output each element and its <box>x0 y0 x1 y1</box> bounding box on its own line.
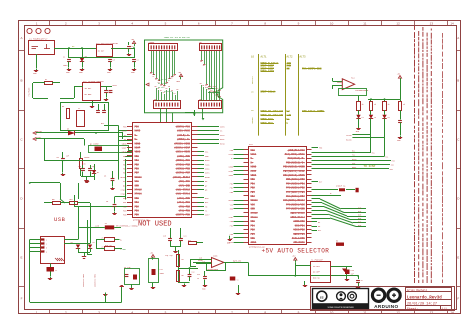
svg-text:TXLED: TXLED <box>346 135 351 137</box>
svg-text:11: 11 <box>363 22 366 26</box>
svg-text:1u: 1u <box>197 278 199 280</box>
svg-text:D13: D13 <box>213 86 216 88</box>
svg-text:C4 1uF: C4 1uF <box>124 267 130 269</box>
svg-text:PF0(ADC0)/PB2: PF0(ADC0)/PB2 <box>286 187 305 190</box>
svg-text:D6: D6 <box>171 90 173 92</box>
svg-text:ALT3: ALT3 <box>300 56 307 59</box>
svg-text:UCAP: UCAP <box>229 170 233 173</box>
svg-text:POLYFUSE: POLYFUSE <box>29 88 31 97</box>
svg-text:PB2: PB2 <box>251 187 256 190</box>
svg-text:D10: D10 <box>358 221 361 223</box>
svg-text:MOS: MOS <box>390 169 393 171</box>
svg-text:D10: D10 <box>358 207 361 209</box>
svg-text:V2: V2 <box>155 79 157 81</box>
svg-text:ALT2: ALT2 <box>287 56 294 59</box>
svg-text:RD-: RD- <box>52 199 55 201</box>
svg-text:X2 USB-MINI: X2 USB-MINI <box>42 240 45 252</box>
svg-text:PE6: PE6 <box>319 148 322 150</box>
svg-text:D1: D1 <box>157 88 159 90</box>
svg-text:D10: D10 <box>358 211 361 213</box>
svg-text:D-: D- <box>330 193 332 195</box>
svg-text:C2: C2 <box>137 60 139 62</box>
svg-text:C11: C11 <box>160 269 163 271</box>
svg-text:C21: C21 <box>184 236 187 238</box>
svg-text:R8: R8 <box>336 241 338 243</box>
svg-text:VCC: VCC <box>230 204 233 206</box>
svg-text:D14: D14 <box>215 88 218 90</box>
svg-text:MF-MSMF050-2 500mA: MF-MSMF050-2 500mA <box>116 224 138 227</box>
svg-text:F2: F2 <box>105 223 107 225</box>
svg-text:D4: D4 <box>165 88 167 90</box>
svg-text:TXL: TXL <box>385 156 388 158</box>
svg-text:MISO: MISO <box>352 159 356 161</box>
svg-text:1/1: 1/1 <box>442 307 447 311</box>
svg-text:C13: C13 <box>351 270 354 272</box>
svg-text:R9: R9 <box>182 275 184 277</box>
svg-text:(OC0A) UCAP: (OC0A) UCAP <box>174 147 190 150</box>
svg-text:3: 3 <box>46 248 47 250</box>
svg-text:UGND: UGND <box>122 142 128 145</box>
svg-text:D8: D8 <box>200 83 202 85</box>
svg-text:PGUB: PGUB <box>337 81 343 84</box>
svg-text:10: 10 <box>251 56 255 59</box>
svg-text:T1 FDN340P: T1 FDN340P <box>311 259 324 262</box>
svg-text:XTAL: XTAL <box>229 216 233 219</box>
svg-text:GND: GND <box>79 72 82 74</box>
svg-text:PE6: PE6 <box>135 126 140 129</box>
svg-text:A: A <box>457 36 459 40</box>
svg-text:1k: 1k <box>362 104 364 106</box>
svg-text:GND: GND <box>107 72 110 74</box>
svg-text:12: 12 <box>396 22 400 26</box>
svg-text:PD3: PD3 <box>230 234 233 236</box>
svg-text:IN OUT: IN OUT <box>98 50 106 53</box>
svg-text:X1 POWERSUPPLY: X1 POWERSUPPLY <box>29 37 48 40</box>
svg-text:L4: L4 <box>374 117 376 119</box>
svg-text:IN OUT: IN OUT <box>85 87 93 90</box>
svg-text:PD4(ADC8)/PB1: PD4(ADC8)/PB1 <box>286 182 305 185</box>
svg-text:(T1) PD3: (T1) PD3 <box>179 210 191 213</box>
svg-text:Sheet:: Sheet: <box>407 307 419 311</box>
svg-text:D10: D10 <box>205 87 208 89</box>
svg-text:A: A <box>20 36 22 40</box>
svg-text:1k: 1k <box>83 164 85 166</box>
svg-text:ALT1: ALT1 <box>261 56 268 59</box>
svg-text:MIS: MIS <box>392 161 395 163</box>
svg-text:(XCK1) PB3: (XCK1) PB3 <box>176 168 191 171</box>
svg-text:NOT USED: NOT USED <box>138 221 172 229</box>
svg-text:VCC2/PD2: VCC2/PD2 <box>293 229 305 232</box>
svg-text:(A8) XTAL2: (A8) XTAL2 <box>176 189 191 192</box>
svg-text:PE6: PE6 <box>230 150 233 152</box>
svg-text:GND: GND <box>356 131 359 133</box>
svg-text:GATE_CMD: GATE_CMD <box>233 260 241 263</box>
svg-text:D2: D2 <box>97 172 99 174</box>
svg-text:4: 4 <box>46 252 47 254</box>
svg-text:PD3: PD3 <box>135 210 140 213</box>
svg-text:MOSI: MOSI <box>220 138 225 141</box>
svg-text:CDSOT23-T05C: CDSOT23-T05C <box>83 274 85 287</box>
svg-text:RXL: RXL <box>372 152 375 154</box>
svg-text:100n: 100n <box>63 65 67 67</box>
svg-text:SDA+SCL: SDA+SCL <box>251 75 254 84</box>
svg-text:C7: C7 <box>132 46 134 48</box>
svg-text:PB1: PB1 <box>230 183 233 185</box>
svg-text:D-: D- <box>124 134 126 137</box>
svg-text:Y2: Y2 <box>78 108 80 110</box>
svg-text:R10 1M: R10 1M <box>105 245 111 247</box>
svg-text:2u: 2u <box>361 280 363 282</box>
svg-text:C3: C3 <box>113 60 115 62</box>
svg-text:C20: C20 <box>163 236 166 238</box>
svg-text:C1: C1 <box>63 57 65 59</box>
svg-text:+5Pu5V: +5Pu5V <box>251 116 254 124</box>
svg-text:V9: V9 <box>173 75 175 77</box>
svg-text:A7: A7 <box>205 184 207 187</box>
svg-text:GND: GND <box>66 72 69 74</box>
svg-text:1: 1 <box>46 240 47 242</box>
svg-text:R4: R4 <box>182 259 184 261</box>
svg-text:D2: D2 <box>160 90 162 92</box>
svg-text:C9: C9 <box>106 201 108 203</box>
svg-text:D3: D3 <box>67 129 69 131</box>
svg-text:D7: D7 <box>174 93 176 95</box>
svg-text:V1: V1 <box>152 76 154 78</box>
svg-text:D0: D0 <box>155 86 157 88</box>
svg-text:PB3: PB3 <box>135 168 140 171</box>
svg-text:F: F <box>457 296 459 300</box>
svg-text:PF6(ADC6)/VCC: PF6(ADC6)/VCC <box>286 203 305 206</box>
svg-text:V8: V8 <box>171 78 173 80</box>
svg-text:Z3: Z3 <box>71 242 73 244</box>
svg-text:UCAP: UCAP <box>135 147 141 150</box>
svg-text:1k: 1k <box>374 104 376 106</box>
svg-text:D15: D15 <box>218 90 221 92</box>
svg-text:C14: C14 <box>197 274 200 276</box>
svg-text:C6: C6 <box>109 91 111 93</box>
svg-text:13: 13 <box>430 22 434 26</box>
svg-text:Q1 16MHz: Q1 16MHz <box>90 144 99 146</box>
svg-text:D5: D5 <box>168 86 170 88</box>
svg-text:C5: C5 <box>57 157 59 159</box>
svg-text:D-: D- <box>231 158 233 160</box>
svg-text:E: E <box>457 256 459 260</box>
svg-text:F1: F1 <box>45 79 47 81</box>
svg-text:L3: L3 <box>362 117 364 119</box>
svg-text:A0 A1 A2: A0 A1 A2 <box>158 78 167 81</box>
svg-text:D8: D8 <box>176 89 178 91</box>
svg-text:Z4: Z4 <box>93 242 95 244</box>
svg-text:ON OFF: ON OFF <box>313 271 320 274</box>
svg-text:D10: D10 <box>358 214 361 216</box>
svg-text:A3 A4 A5: A3 A4 A5 <box>158 82 167 85</box>
svg-text:UGND: UGND <box>229 167 233 169</box>
svg-text:PD1: PD1 <box>230 225 233 227</box>
svg-text:PB5(ADC12)/UGND: PB5(ADC12)/UGND <box>283 166 305 169</box>
svg-text:RESET: RESET <box>120 176 127 179</box>
svg-text:10: 10 <box>330 22 334 26</box>
svg-text:GND: GND <box>202 289 205 291</box>
svg-text:INT7: INT7 <box>205 214 210 217</box>
svg-text:L5: L5 <box>388 117 390 119</box>
svg-text:PF7(ADC7)/GND: PF7(ADC7)/GND <box>286 208 305 211</box>
svg-text:C15: C15 <box>202 262 205 264</box>
svg-text:R3: R3 <box>62 106 64 108</box>
svg-text:C12: C12 <box>192 272 195 274</box>
svg-text:PD2: PD2 <box>251 229 256 232</box>
svg-text:UCAP: UCAP <box>122 147 128 150</box>
svg-text:GND: GND <box>397 140 400 142</box>
svg-text:26/01/29 14:27: 26/01/29 14:27 <box>407 302 437 307</box>
svg-text:D12: D12 <box>318 230 321 232</box>
svg-text:GND: GND <box>230 209 233 211</box>
svg-text:UVCC: UVCC <box>122 130 128 133</box>
svg-text:TO ICSP: TO ICSP <box>364 165 376 168</box>
svg-text:RC4: RC4 <box>351 78 354 80</box>
svg-text:D+: D+ <box>120 240 122 242</box>
svg-text:RESE: RESE <box>229 200 233 202</box>
svg-text:16MHz: 16MHz <box>84 157 89 159</box>
svg-text:V0: V0 <box>150 73 152 75</box>
svg-text:UVCC: UVCC <box>229 154 233 156</box>
svg-text:PB1: PB1 <box>251 182 256 185</box>
svg-text:RD+: RD+ <box>70 199 73 201</box>
svg-text:PB6(ADC13)/D+: PB6(ADC13)/D+ <box>286 161 305 164</box>
svg-text:F: F <box>21 296 23 300</box>
svg-text:UID/PD1: UID/PD1 <box>295 224 306 227</box>
svg-text:T2: T2 <box>237 280 239 282</box>
svg-text:UGND: UGND <box>251 166 257 169</box>
svg-text:VCC: VCC <box>251 203 256 206</box>
svg-text:D17: D17 <box>319 181 322 183</box>
svg-text:22p: 22p <box>78 166 81 168</box>
svg-text:XTAL2: XTAL2 <box>135 189 143 192</box>
svg-text:D10: D10 <box>358 218 361 220</box>
svg-text:22p: 22p <box>92 166 95 168</box>
svg-text:MOSI: MOSI <box>352 167 356 169</box>
svg-text:GND: GND <box>227 242 230 244</box>
svg-text:GND: GND <box>131 72 134 74</box>
svg-text:2: 2 <box>46 244 47 246</box>
svg-text:CDSOT23-T05C: CDSOT23-T05C <box>95 274 97 287</box>
svg-text:PD1: PD1 <box>251 224 256 227</box>
svg-text:100n: 100n <box>160 273 164 275</box>
svg-text:D1: D1 <box>85 56 87 58</box>
svg-text:PD0: PD0 <box>230 221 233 223</box>
svg-text:ARDUINO: ARDUINO <box>374 304 398 309</box>
svg-text:1uF: 1uF <box>66 156 69 158</box>
svg-text:GND: GND <box>251 208 256 211</box>
svg-text:22p 22p: 22p 22p <box>165 255 173 257</box>
svg-text:PB3: PB3 <box>230 192 233 194</box>
svg-text:uSBuf D+: uSBuf D+ <box>336 185 346 188</box>
svg-text:R21: R21 <box>188 240 191 242</box>
svg-text:cc: cc <box>320 295 324 299</box>
svg-text:GND: GND <box>33 73 36 75</box>
svg-text:1uF: 1uF <box>351 274 354 276</box>
svg-text:VBUS: VBUS <box>229 175 233 177</box>
svg-text:IOREF RST 3V3 5V GND VIN: IOREF RST 3V3 5V GND VIN <box>164 37 190 39</box>
svg-text:SOME RIGHTS RESERVED: SOME RIGHTS RESERVED <box>328 307 355 309</box>
svg-text:1k: 1k <box>403 104 405 106</box>
svg-text:XTAL1: XTAL1 <box>120 193 127 196</box>
svg-text:C10: C10 <box>199 257 202 259</box>
svg-text:GND: GND <box>123 249 126 251</box>
svg-text:IN OUT: IN OUT <box>313 265 321 268</box>
svg-text:D3: D3 <box>163 92 165 94</box>
svg-text:RXLED: RXLED <box>346 140 351 142</box>
svg-text:C8: C8 <box>104 176 106 178</box>
svg-text:V7: V7 <box>168 80 170 82</box>
svg-text:D5: D5 <box>318 226 320 228</box>
svg-text:L7: L7 <box>55 270 57 272</box>
svg-text:Arjen Rocholl: Arjen Rocholl <box>407 288 428 292</box>
svg-text:B: B <box>457 79 459 83</box>
svg-text:GND NC: GND NC <box>313 277 321 280</box>
svg-text:VBUS: VBUS <box>122 151 128 154</box>
svg-text:14: 14 <box>450 22 454 26</box>
svg-text:RXL: RXL <box>352 151 355 153</box>
svg-text:ON GND: ON GND <box>85 93 93 96</box>
svg-text:D10: D10 <box>358 225 361 227</box>
svg-text:Leonardo_Rev3d: Leonardo_Rev3d <box>407 295 442 300</box>
svg-text:TXL: TXL <box>352 155 355 157</box>
svg-text:+5V AUTO SELECTOR: +5V AUTO SELECTOR <box>262 248 330 255</box>
svg-text:PB2: PB2 <box>230 188 233 190</box>
svg-text:USB: USB <box>54 217 66 223</box>
svg-text:1k: 1k <box>388 104 390 106</box>
svg-text:D11: D11 <box>208 89 211 91</box>
svg-text:B: B <box>20 79 22 83</box>
svg-text:E: E <box>20 256 22 260</box>
svg-text:XTAL2: XTAL2 <box>120 189 127 192</box>
svg-text:D4: D4 <box>318 222 320 224</box>
svg-text:D9: D9 <box>202 85 204 87</box>
svg-text:(INT6) PE6: (INT6) PE6 <box>176 126 191 129</box>
